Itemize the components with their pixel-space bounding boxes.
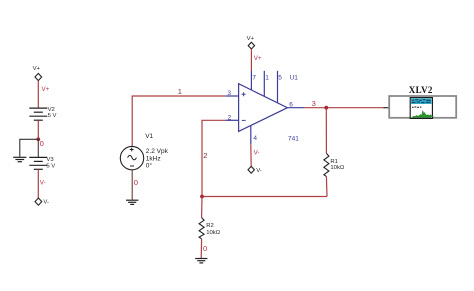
svg-text:2.2 Vpk: 2.2 Vpk [146, 148, 169, 155]
svg-text:4: 4 [253, 135, 257, 142]
instrument pin stub [384, 107, 389, 109]
wire output net 3 [304, 107, 386, 109]
svg-text:1: 1 [178, 87, 182, 96]
svg-text:2: 2 [228, 115, 232, 122]
wire bottom net 2 horizontal [202, 196, 327, 198]
svg-text:V+: V+ [42, 86, 50, 93]
node V+ (left supply) [33, 66, 42, 81]
ground (left) [13, 157, 26, 161]
wire node 0 to V3 [37, 139, 39, 157]
wire node 0 to ground [20, 139, 39, 157]
instrument XLV2 box [389, 96, 456, 118]
svg-text:0: 0 [203, 244, 207, 253]
svg-text:7: 7 [252, 75, 256, 82]
junction output node [324, 106, 328, 110]
svg-text:0: 0 [134, 178, 138, 187]
node V+ (op-amp supply) [247, 36, 255, 49]
svg-text:3: 3 [227, 90, 231, 97]
svg-text:1: 1 [265, 75, 269, 82]
wire R1 to bottom net [325, 176, 328, 196]
wire node 2 to R2 [201, 197, 203, 218]
svg-text:V+: V+ [33, 66, 41, 72]
node V- (left supply) [35, 198, 49, 205]
op-amp U1 741 [225, 71, 304, 144]
junction node 2 [200, 195, 204, 199]
resistor R2 [199, 218, 204, 239]
label R2 value [206, 223, 220, 236]
label V3 value [46, 157, 55, 169]
svg-text:V-: V- [40, 180, 46, 187]
junction node 0 (left) [36, 137, 40, 141]
svg-text:10kΩ: 10kΩ [206, 230, 220, 236]
svg-text:0: 0 [40, 139, 44, 148]
wire V+ to V2 [37, 81, 39, 108]
svg-text:R1: R1 [330, 159, 338, 165]
wire V+ to pin 7 [250, 49, 252, 71]
svg-text:1kHz: 1kHz [146, 155, 161, 162]
battery V3 [29, 157, 47, 169]
svg-text:V+: V+ [247, 36, 255, 42]
svg-text:V-: V- [43, 199, 49, 205]
svg-text:V1: V1 [145, 133, 153, 140]
svg-text:6: 6 [289, 101, 293, 108]
label R1 value [330, 159, 344, 171]
svg-text:5: 5 [278, 75, 282, 82]
op-amp pin numbers [227, 75, 293, 142]
wire op-amp pin 2 feedback (net 2) [202, 120, 225, 196]
ground (below V1) [126, 200, 138, 204]
svg-text:U1: U1 [290, 75, 299, 82]
svg-text:0°: 0° [146, 161, 153, 169]
svg-text:V-: V- [254, 150, 260, 157]
svg-text:5 V: 5 V [48, 113, 57, 119]
svg-text:3: 3 [312, 99, 316, 108]
AC source V1 [120, 146, 143, 169]
wire output to R1 [325, 108, 327, 154]
wire V2 to node 0 [37, 120, 39, 139]
wire pin 4 to V- [250, 144, 252, 166]
wire V3 to V- [37, 169, 39, 198]
svg-text:V2: V2 [48, 107, 55, 113]
resistor R1 [324, 153, 329, 176]
svg-text:2: 2 [203, 151, 207, 160]
svg-text:741: 741 [288, 135, 299, 142]
svg-text:5 V: 5 V [46, 163, 55, 169]
label V1 values [145, 133, 168, 170]
wire R2 to ground [200, 239, 202, 258]
battery V2 [29, 108, 47, 120]
instrument XLV2 icon [410, 98, 433, 119]
svg-text:V3: V3 [46, 157, 54, 163]
ground (bottom) [195, 259, 207, 263]
node V- (op-amp supply) [248, 166, 262, 173]
svg-text:XLV2: XLV2 [409, 85, 433, 95]
wire V1 to ground [131, 170, 133, 200]
label V2 value [48, 107, 57, 119]
svg-text:V+: V+ [254, 55, 262, 62]
op-amp +/- marks [242, 92, 246, 120]
svg-text:R2: R2 [206, 223, 214, 229]
svg-text:V-: V- [256, 168, 262, 174]
svg-text:10kΩ: 10kΩ [330, 165, 344, 171]
wire V1 to op-amp pin 3 (net 1) [132, 96, 225, 147]
